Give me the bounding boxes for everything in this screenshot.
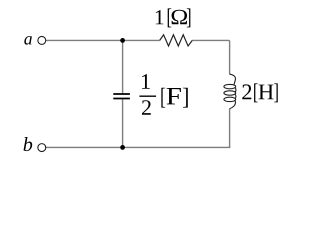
label ohm bracket right: [187, 8, 191, 27]
wire right-bottom: coil to bottom corner: [228, 109, 231, 148]
inductor L coil loop 1: [224, 84, 236, 88]
terminal a: [38, 36, 46, 44]
capacitor fraction denominator 2: [142, 100, 151, 115]
inductor top hook: [230, 74, 236, 85]
label a: [24, 36, 32, 44]
terminal b: [38, 144, 46, 152]
label F bracket left: [161, 88, 165, 108]
inductor bottom hook: [230, 101, 236, 109]
label H bracket left: [254, 83, 258, 102]
label omega: [172, 10, 187, 25]
label ohm bracket left: [168, 8, 172, 27]
label 2 henry digit: [242, 84, 251, 99]
wire top-right: resistor to corner down to coil: [192, 40, 229, 74]
inductor connector arc 1: [234, 88, 237, 92]
label letter H: [259, 85, 274, 100]
wire top: terminal a to resistor: [46, 39, 160, 41]
label H bracket right: [274, 83, 278, 102]
node top junction: [120, 38, 125, 43]
resistor R 1 ohm zigzag: [160, 35, 193, 46]
node bottom junction: [120, 145, 125, 150]
wire bottom: terminal b to right corner: [46, 146, 231, 148]
label b: [24, 137, 33, 151]
inductor connector arc 2: [234, 94, 237, 98]
wire middle vertical lower: capacitor to bottom node: [122, 99, 124, 147]
label 1 ohm digit: [156, 10, 164, 24]
inductor L coil loop 3: [224, 97, 236, 101]
capacitor fraction bar: [139, 95, 156, 97]
label F bracket right: [183, 88, 188, 108]
wire middle vertical upper: node to capacitor: [122, 40, 124, 93]
inductor L coil loop 2: [224, 91, 236, 95]
capacitor fraction numerator 1: [142, 74, 150, 89]
capacitor C plates: [113, 94, 130, 99]
label letter F: [167, 88, 181, 104]
